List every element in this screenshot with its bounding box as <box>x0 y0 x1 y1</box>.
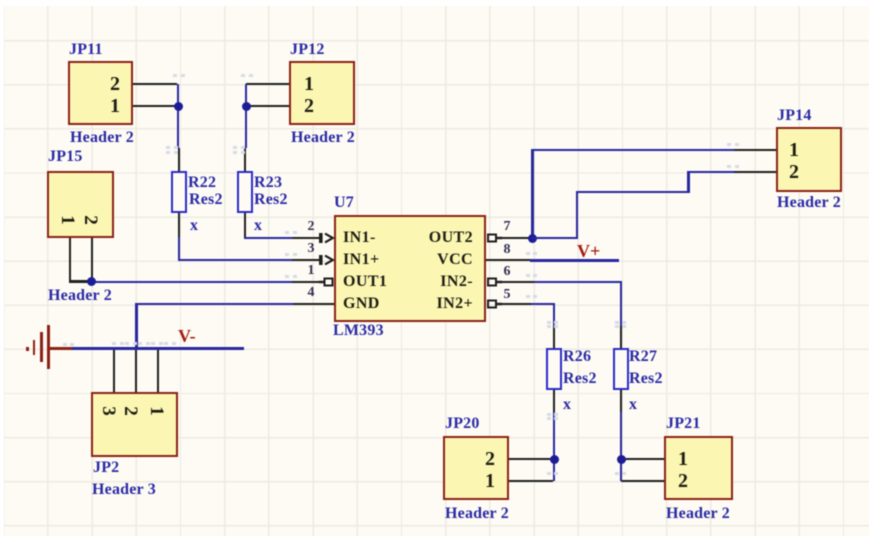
U7 pin name IN2- <box>440 271 473 293</box>
wire R27 to JP21 vertical <box>620 412 623 481</box>
resistor R23 <box>237 171 253 213</box>
wire U7 pin6 to R27 horizontal <box>534 281 622 284</box>
JP2 pin 2 stub <box>135 349 138 392</box>
wire JP12 to R23 vertical <box>245 84 248 148</box>
ground symbol bar 3 <box>33 340 36 355</box>
pin 5 output glyph <box>488 301 502 308</box>
R22 bottom pin <box>178 213 181 237</box>
pin 1 output glyph <box>319 279 333 286</box>
JP2 pin number 1 <box>145 401 167 421</box>
wire U7 pin7 to JP14 pin1 vertical <box>531 149 534 238</box>
wire R23 to U7 pin2 horizontal <box>244 237 292 240</box>
JP12 refdes label <box>290 39 325 61</box>
U7 pin number 6 <box>498 261 516 283</box>
wire R22 to U7 pin3 vertical <box>178 237 181 261</box>
U7 pin name VCC <box>437 249 473 271</box>
wire horizontal to JP14 pin2 <box>687 171 734 174</box>
JP12 pin 2 stub <box>246 105 289 108</box>
R27 top pin <box>620 326 623 348</box>
junction dot JP11 <box>174 102 183 111</box>
JP20 value label Header 2 <box>445 503 509 525</box>
V- rail wire <box>72 347 244 350</box>
R26 bottom pin <box>553 390 556 412</box>
wire to JP14 pin1 horizontal <box>531 149 734 152</box>
ground red lead <box>48 347 72 350</box>
resistor R26 <box>546 348 562 390</box>
JP2 pin 1 stub <box>157 349 160 392</box>
wire bend up at x688 <box>687 171 690 193</box>
R26 top pin <box>553 326 556 348</box>
JP20 refdes label <box>445 413 480 435</box>
R23 value label x <box>254 215 262 237</box>
JP12 pin 1 stub <box>246 83 289 86</box>
JP2 pin number 3 <box>97 401 119 421</box>
junction dot R26/JP20 <box>550 455 559 464</box>
junction dot R27/JP21 <box>617 455 626 464</box>
JP20 pin 1 stub <box>509 480 553 483</box>
U7 pin 3 line <box>291 259 321 262</box>
JP11 pin 1 stub <box>133 105 177 108</box>
U7 pin 5 line <box>497 303 531 306</box>
resistor R27 <box>613 348 629 390</box>
U7 pin 1 line <box>291 281 325 284</box>
U7 pin 2 line <box>291 237 321 240</box>
U7 refdes label <box>334 192 354 214</box>
U7 pin number 5 <box>498 284 516 306</box>
U7 pin 7 line <box>497 237 532 240</box>
pin 3 input glyph <box>319 255 333 265</box>
wire U7 pin5 to R26 horizontal <box>531 303 555 306</box>
faint ghost marks (compression artifacts in source) <box>166 146 170 149</box>
JP21 value label Header 2 <box>666 503 730 525</box>
R27 refdes label <box>629 346 657 368</box>
U7 pin 8 line <box>486 259 530 262</box>
U7 pin name OUT1 <box>343 271 387 293</box>
JP14 refdes label <box>777 105 812 127</box>
R27 value label x <box>629 394 637 416</box>
JP14 pin number 1 <box>784 139 804 161</box>
wire pin5 vertical to R26 <box>553 303 556 326</box>
connector JP11 <box>68 61 133 125</box>
JP12 pin number 1 <box>299 73 319 95</box>
white margin left <box>0 0 4 536</box>
U7 pin number 8 <box>498 239 516 261</box>
wire U7 GND horizontal <box>135 303 293 306</box>
JP15 value label Header 2 <box>48 285 112 307</box>
JP15 pin number 1 <box>56 210 78 230</box>
JP12 pin number 2 <box>299 95 319 117</box>
connector JP15 <box>47 171 114 238</box>
junction dot U7 pin7 <box>528 234 537 243</box>
JP20 pin number 2 <box>480 448 500 470</box>
R22 value label x <box>190 215 198 237</box>
resistor R22 <box>171 171 187 213</box>
junction dot JP15 <box>87 277 96 286</box>
R23 value label Res2 <box>254 189 288 211</box>
JP15 pin joining wire <box>69 280 93 283</box>
ground symbol bar 2 <box>40 332 43 362</box>
R23 bottom pin <box>244 213 247 238</box>
R22 top pin <box>178 148 181 171</box>
connector JP14 <box>776 127 842 192</box>
JP21 pin 2 stub <box>621 480 664 483</box>
ground symbol bar 4 <box>26 347 29 351</box>
R27 bottom pin <box>620 390 623 412</box>
wire bend up at x577 <box>576 191 579 239</box>
JP21 pin number 1 <box>673 448 693 470</box>
JP11 pin 2 stub <box>133 83 177 86</box>
R23 top pin <box>244 148 247 171</box>
JP11 pin number 2 <box>105 73 125 95</box>
JP2 pin 3 stub <box>113 349 116 392</box>
wire pin7 to bend right <box>532 237 578 240</box>
JP21 refdes label <box>666 413 701 435</box>
net label V- <box>178 325 196 347</box>
pin 6 output glyph <box>488 279 502 286</box>
R26 value label Res2 <box>563 368 597 390</box>
wire U7 GND vertical to V- rail <box>135 303 138 349</box>
JP12 value label Header 2 <box>291 127 355 149</box>
wire JP15 to U7 pin1 <box>90 281 292 284</box>
JP20 pin number 1 <box>480 470 500 492</box>
wire pin6 vertical to R27 <box>620 281 623 326</box>
U7 pin name GND <box>343 293 380 315</box>
R22 value label Res2 <box>189 189 223 211</box>
JP15 pin number 2 <box>79 210 101 230</box>
R22 refdes label <box>188 172 216 194</box>
pin 7 output glyph <box>488 235 502 242</box>
wire R22 to U7 pin3 horizontal <box>178 259 292 262</box>
pin 2 input glyph <box>319 233 333 243</box>
connector JP12 <box>289 61 355 125</box>
connector JP2 <box>91 392 178 457</box>
JP11 pin number 1 <box>105 95 125 117</box>
JP21 pin number 2 <box>673 470 693 492</box>
U7 pin name IN1+ <box>343 249 380 271</box>
JP14 pin number 2 <box>784 161 804 183</box>
connector JP20 <box>443 436 509 500</box>
U7 value label LM393 <box>333 320 384 342</box>
JP2 refdes label <box>93 457 119 479</box>
R26 value label x <box>563 394 571 416</box>
connector JP21 <box>664 436 733 500</box>
U7 pin number 1 <box>302 260 320 282</box>
U7 pin 4 line <box>292 303 334 306</box>
JP14 pin 1 stub <box>733 149 776 152</box>
wire horizontal y191 <box>576 191 690 194</box>
white margin top <box>0 0 869 6</box>
JP21 pin 1 stub <box>621 458 664 461</box>
ground symbol bar 1 <box>47 325 50 369</box>
U7 pin name IN1- <box>343 227 376 249</box>
U7 pin name OUT2 <box>429 227 473 249</box>
U7 pin number 3 <box>302 238 320 260</box>
junction dot JP12 <box>242 102 251 111</box>
JP11 value label Header 2 <box>70 127 134 149</box>
U7 pin number 2 <box>302 216 320 238</box>
JP11 refdes label <box>69 39 103 61</box>
net label V+ <box>577 240 600 262</box>
JP15 pin 2 stub <box>91 238 94 282</box>
op-amp U7 LM393 <box>334 215 486 322</box>
R27 value label Res2 <box>629 368 663 390</box>
U7 pin number 7 <box>498 216 516 238</box>
wire VCC to V+ stub <box>530 259 619 262</box>
U7 pin number 4 <box>302 282 320 304</box>
JP15 refdes label <box>48 146 83 168</box>
wire R26 to JP20 vertical <box>553 412 556 481</box>
JP14 pin 2 stub <box>733 171 776 174</box>
U7 pin 6 line <box>497 281 534 284</box>
JP2 value label Header 3 <box>92 479 156 501</box>
JP2 pin number 2 <box>119 401 141 421</box>
R26 refdes label <box>563 346 591 368</box>
JP14 value label Header 2 <box>777 192 841 214</box>
wire JP11 to R22 vertical <box>177 84 180 148</box>
JP20 pin 2 stub <box>509 458 553 461</box>
U7 pin name IN2+ <box>437 293 474 315</box>
R23 refdes label <box>254 172 282 194</box>
JP15 pin 1 stub <box>69 238 72 282</box>
